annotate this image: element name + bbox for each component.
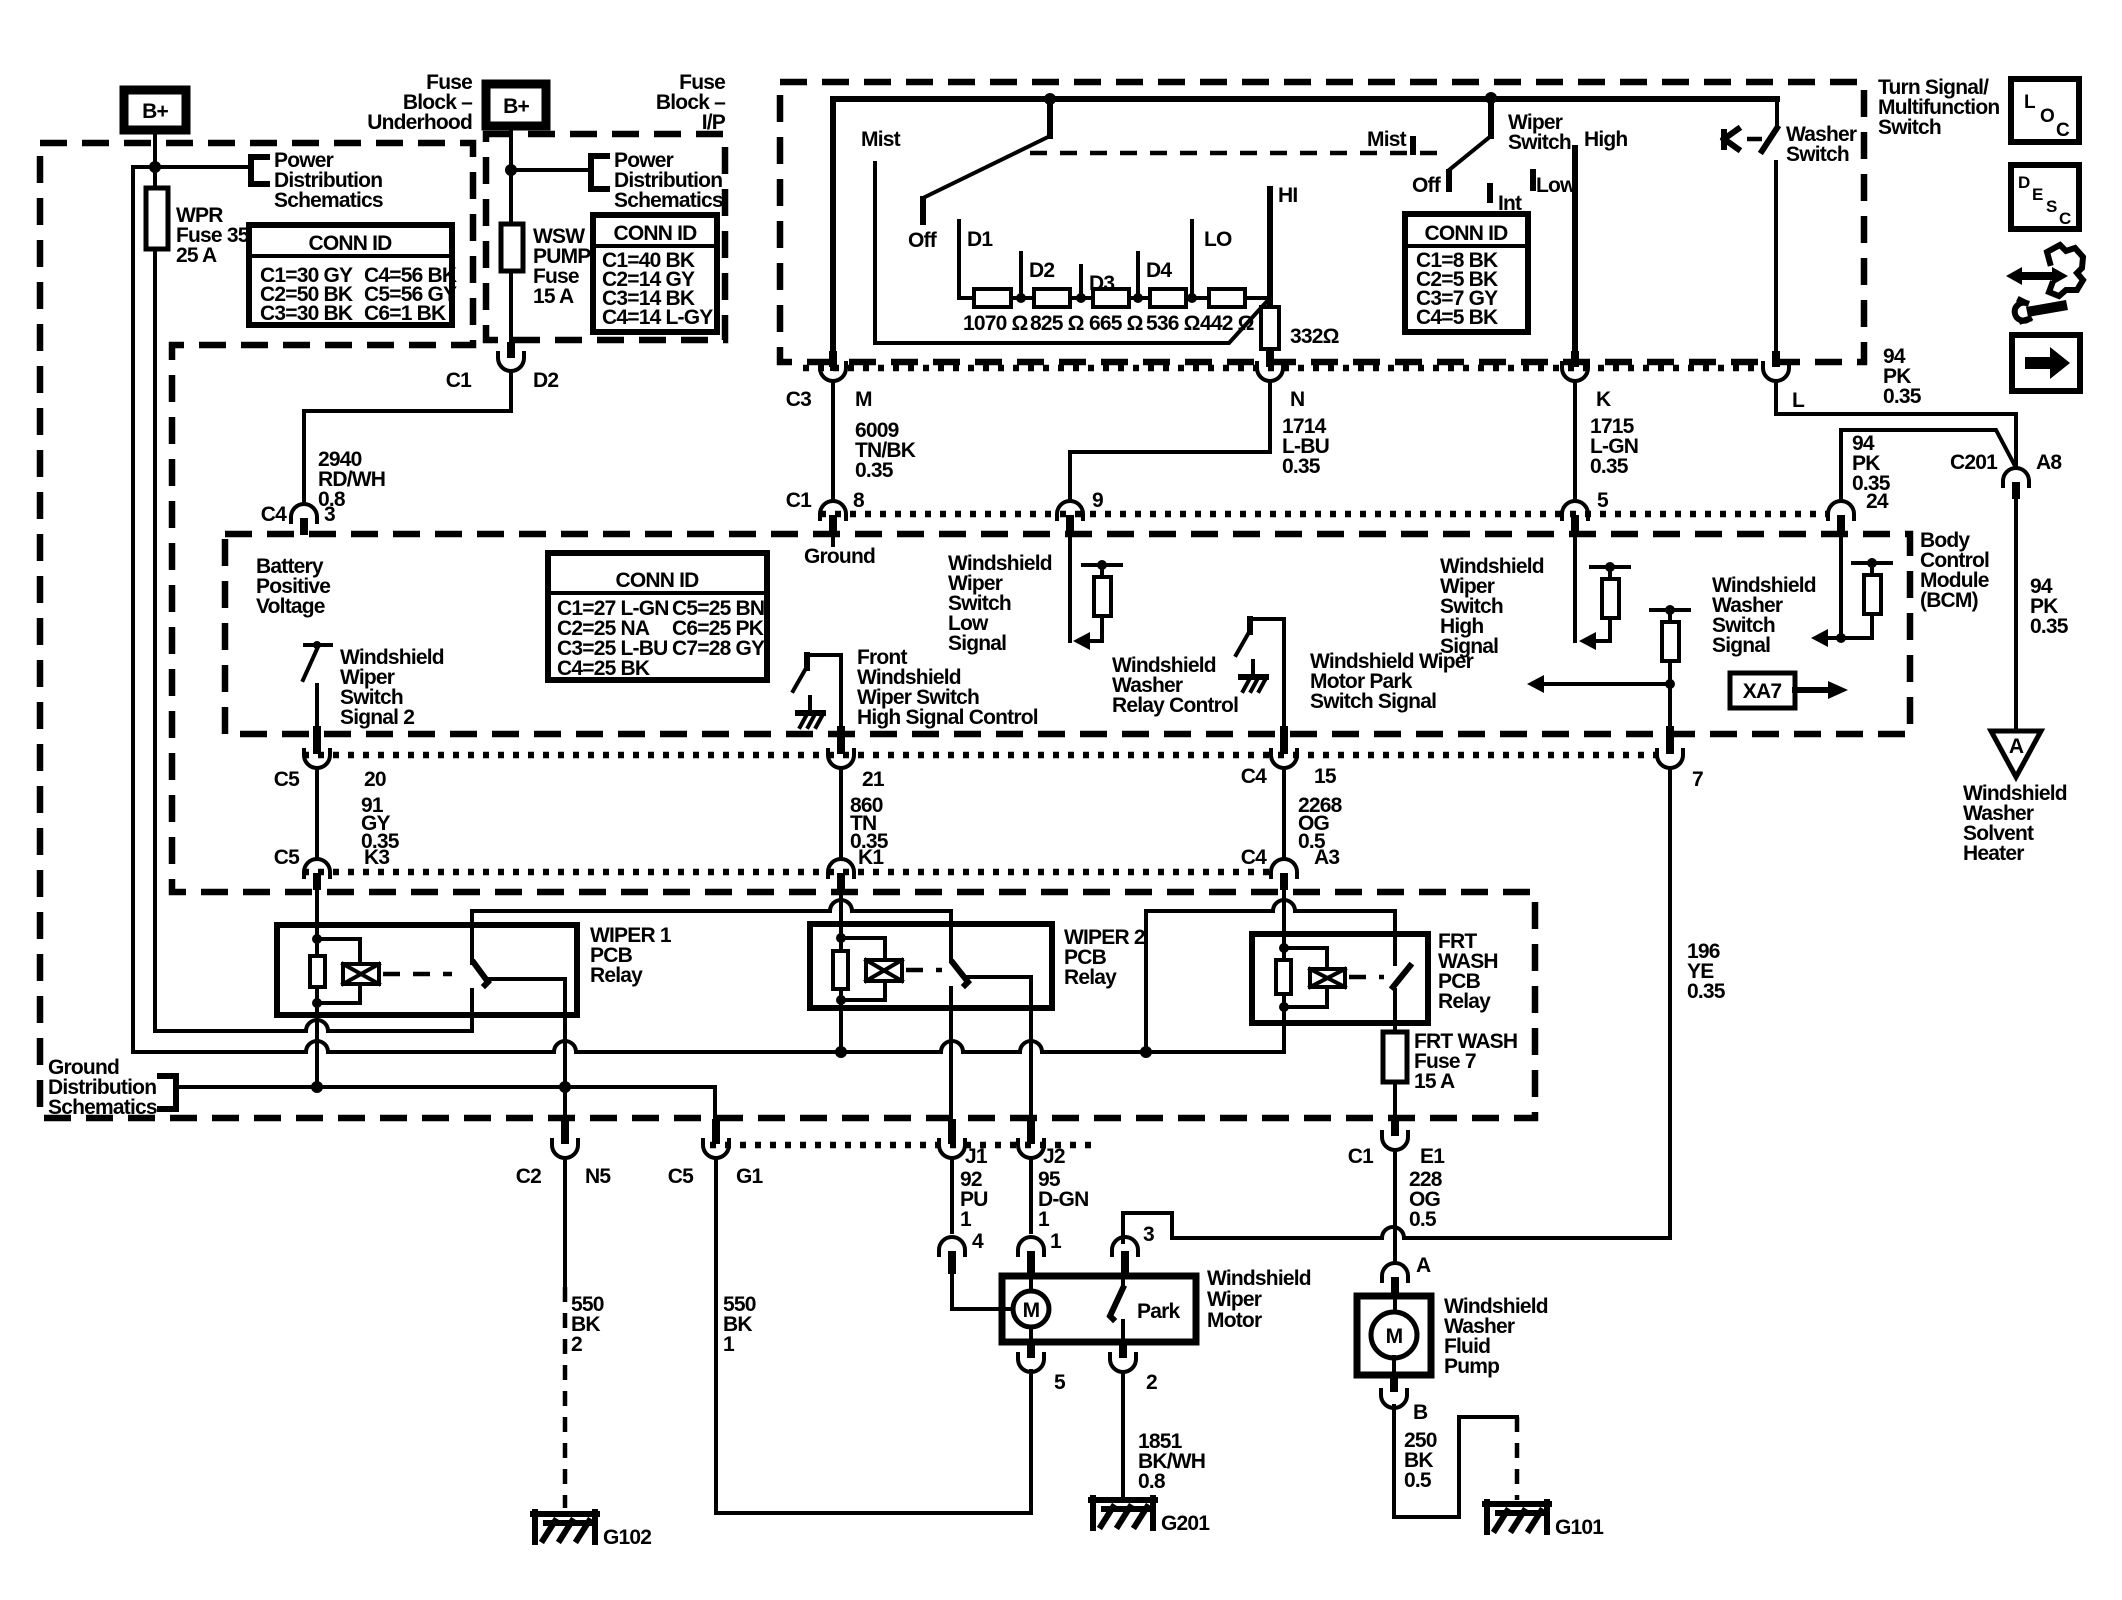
label Windshield Wiper Switch Low Signal xyxy=(948,552,1052,655)
svg-text:L: L xyxy=(2024,92,2036,113)
svg-text:2: 2 xyxy=(1146,1371,1157,1394)
node D3 junction xyxy=(1076,293,1086,303)
svg-text:E1: E1 xyxy=(1420,1145,1445,1168)
relay WIPER 1 PCB box xyxy=(277,924,672,1015)
svg-text:C4: C4 xyxy=(1241,846,1267,869)
svg-text:C7=28 GY: C7=28 GY xyxy=(672,637,765,660)
svg-text:C1: C1 xyxy=(786,489,812,512)
svg-text:J2: J2 xyxy=(1043,1145,1065,1168)
svg-text:Switch: Switch xyxy=(1508,131,1571,154)
junction node B+1 xyxy=(149,161,161,173)
resistor R4 536 ohm xyxy=(1146,289,1200,335)
contact stub D4 xyxy=(1138,253,1172,296)
pump motor M xyxy=(1371,1296,1417,1375)
relay FRT WASH PCB box xyxy=(1252,930,1498,1023)
wire A8 to solvent heater xyxy=(2016,499,2069,731)
svg-text:High: High xyxy=(1584,128,1627,151)
motor windshield wiper motor box xyxy=(1002,1267,1311,1342)
svg-text:B+: B+ xyxy=(503,95,529,118)
wire 228 OG 0.5 xyxy=(1395,1150,1443,1263)
wire 94 PK 0.35 to C201 xyxy=(1776,345,2016,465)
icon DESC box xyxy=(2011,165,2079,229)
wire 94 PK 0.35 branch 24 xyxy=(1841,430,2014,513)
svg-text:Relay: Relay xyxy=(590,964,643,987)
svg-text:21: 21 xyxy=(862,768,885,791)
connector C201 A8 xyxy=(1950,451,2062,499)
connector C2 N5 xyxy=(516,1119,612,1188)
connector 4 xyxy=(939,1230,984,1274)
svg-text:CONN ID: CONN ID xyxy=(1424,222,1508,245)
wire 1851 BK/WH 0.8 xyxy=(1123,1372,1205,1497)
connector C1 D2 xyxy=(446,342,559,392)
svg-text:1070 Ω: 1070 Ω xyxy=(963,312,1028,335)
svg-text:C3=30 BK: C3=30 BK xyxy=(260,302,353,325)
BCM dashed box xyxy=(225,534,1910,734)
wire 6009 TN/BK 0.35 xyxy=(833,381,916,501)
connector L xyxy=(1763,351,1805,412)
svg-text:5: 5 xyxy=(1597,489,1609,512)
wire wiper1 coil return to ground rail xyxy=(315,1003,319,1087)
svg-text:442 Ω: 442 Ω xyxy=(1200,312,1254,335)
connector J2 xyxy=(1018,1119,1065,1168)
node wiper1 coil return on ground rail xyxy=(311,1081,323,1093)
svg-text:Schematics: Schematics xyxy=(274,189,383,212)
svg-text:Motor: Motor xyxy=(1207,1309,1262,1332)
svg-text:B: B xyxy=(1413,1401,1428,1424)
svg-text:C5: C5 xyxy=(274,846,300,869)
svg-text:D1: D1 xyxy=(967,228,993,251)
svg-text:0.5: 0.5 xyxy=(1404,1469,1432,1492)
wire to power distribution bracket 2 xyxy=(511,168,591,172)
connector C5 G1 xyxy=(668,1119,764,1188)
svg-text:0.35: 0.35 xyxy=(1883,385,1922,408)
wire K3 to wiper1 relay coil xyxy=(315,890,319,939)
svg-text:3: 3 xyxy=(324,503,335,526)
contact stub D3 xyxy=(1081,266,1114,296)
svg-text:CONN ID: CONN ID xyxy=(308,232,392,255)
motor armature M xyxy=(952,1274,1049,1342)
svg-text:1: 1 xyxy=(1038,1208,1050,1231)
svg-text:C4=5 BK: C4=5 BK xyxy=(1416,306,1498,329)
icon diagnostic arrows and wrench xyxy=(2006,245,2083,321)
svg-text:15 A: 15 A xyxy=(1414,1070,1455,1093)
label Fuse Block - I/P xyxy=(656,71,726,134)
label Wiper Switch xyxy=(1508,111,1571,154)
label Battery Positive Voltage xyxy=(256,555,330,618)
wire park signal jog xyxy=(1123,1213,1670,1242)
svg-text:Relay Control: Relay Control xyxy=(1112,694,1238,717)
svg-text:C4: C4 xyxy=(1241,765,1267,788)
switch front windshield wiper switch high signal control xyxy=(793,646,1038,729)
svg-text:C2: C2 xyxy=(516,1165,541,1188)
wire 1715 L-GN 0.35 xyxy=(1575,381,1638,501)
svg-text:K3: K3 xyxy=(364,846,389,869)
connector A xyxy=(1382,1254,1431,1297)
wire 550 BK 2 xyxy=(565,1158,604,1508)
svg-text:0.35: 0.35 xyxy=(1590,455,1629,478)
svg-text:C: C xyxy=(2056,120,2070,141)
svg-text:G102: G102 xyxy=(603,1526,651,1549)
svg-text:332Ω: 332Ω xyxy=(1290,325,1339,348)
contact stub Off right xyxy=(1412,172,1449,197)
svg-text:536 Ω: 536 Ω xyxy=(1146,312,1200,335)
wire WSW fuse to connector xyxy=(509,271,513,342)
B+ terminal box 2 xyxy=(486,84,546,126)
connector 21 xyxy=(828,726,885,791)
ground G102 xyxy=(533,1512,651,1549)
connector 7 xyxy=(1657,726,1703,791)
svg-text:7: 7 xyxy=(1692,768,1703,791)
wire A3 to frt wash relay coil xyxy=(1282,890,1286,948)
svg-text:A3: A3 xyxy=(1314,846,1339,869)
pump windshield washer fluid pump box xyxy=(1357,1295,1548,1378)
wire High contact to connector K xyxy=(1575,128,1627,351)
wire B+1 down xyxy=(153,130,157,167)
label Mist right xyxy=(1367,128,1413,152)
svg-text:9: 9 xyxy=(1092,489,1103,512)
svg-text:L: L xyxy=(1792,389,1805,412)
svg-text:C: C xyxy=(2059,209,2071,228)
relay wiper2 coil xyxy=(833,933,902,1005)
bracket power distribution schematics 1 xyxy=(251,149,383,212)
node wiper2 coil return on rail xyxy=(835,1046,847,1058)
svg-text:Underhood: Underhood xyxy=(367,111,472,134)
svg-text:Park: Park xyxy=(1137,1300,1180,1323)
svg-text:Relay: Relay xyxy=(1064,966,1117,989)
wire 550 BK 1 xyxy=(716,1158,1031,1513)
svg-text:Signal 2: Signal 2 xyxy=(340,706,414,729)
icon arrow box xyxy=(2012,335,2080,391)
connector J1 xyxy=(939,1119,988,1168)
svg-text:4: 4 xyxy=(972,1230,984,1253)
svg-text:B+: B+ xyxy=(142,100,168,123)
svg-text:C201: C201 xyxy=(1950,451,1998,474)
svg-text:A8: A8 xyxy=(2036,451,2062,474)
wire 2268 OG 0.5 xyxy=(1284,768,1343,859)
connector C4 3 xyxy=(291,504,317,535)
label Windshield Wiper Switch High Signal xyxy=(1440,555,1544,658)
svg-text:2: 2 xyxy=(571,1333,582,1356)
contact stub LO xyxy=(1192,221,1232,296)
svg-text:8: 8 xyxy=(853,489,865,512)
svg-text:O: O xyxy=(2040,106,2054,127)
svg-text:C4: C4 xyxy=(261,503,287,526)
svg-text:C6=1 BK: C6=1 BK xyxy=(364,302,446,325)
fuse block underhood dashed outline (merges into relay region below) xyxy=(40,143,1535,1118)
connector 2 xyxy=(1110,1342,1157,1394)
fuse block I/P dashed outline xyxy=(486,134,725,340)
svg-text:CONN ID: CONN ID xyxy=(615,569,699,592)
bracket ground distribution schematics xyxy=(48,1056,176,1119)
svg-text:Switch: Switch xyxy=(1878,116,1941,139)
svg-text:M: M xyxy=(1386,1325,1403,1348)
relay WIPER 2 PCB box xyxy=(810,924,1145,1008)
relay frt wash coil xyxy=(1276,943,1345,1012)
relay wiper1 switch xyxy=(472,911,565,1052)
wire 91 GY 0.35 xyxy=(317,768,400,859)
connector 5 xyxy=(1018,1342,1066,1394)
wire wiper1 relay output to N5 xyxy=(563,979,567,1128)
svg-text:Signal: Signal xyxy=(1712,634,1770,657)
off-page connector A windshield washer solvent heater xyxy=(1963,731,2067,865)
svg-text:(BCM): (BCM) xyxy=(1920,589,1978,612)
relay wiper2 actuation dashes xyxy=(906,968,942,973)
wire washer switch to connector L xyxy=(1774,162,1778,351)
label Body Control Module (BCM) xyxy=(1920,529,1989,612)
wire frt fuse to E1 xyxy=(1393,1082,1397,1120)
ground G201 xyxy=(1091,1498,1210,1535)
svg-text:Pump: Pump xyxy=(1444,1355,1499,1378)
wire B+2 down xyxy=(509,126,513,170)
wire WPR fuse down to feed rail xyxy=(153,249,157,1031)
svg-text:Windshield: Windshield xyxy=(1207,1267,1311,1290)
svg-text:665 Ω: 665 Ω xyxy=(1089,312,1143,335)
svg-text:LO: LO xyxy=(1204,228,1232,251)
wire relay interconnect 911 right xyxy=(1146,900,1395,964)
svg-text:24: 24 xyxy=(1866,490,1889,513)
ground G101 xyxy=(1485,1502,1604,1539)
svg-text:C1: C1 xyxy=(1348,1145,1374,1168)
wire to power distribution bracket xyxy=(133,165,251,169)
svg-text:Relay: Relay xyxy=(1438,990,1491,1013)
wire wiper2 coil return to rail xyxy=(839,1000,843,1052)
resistor R1 1070 ohm xyxy=(963,289,1028,335)
connector N xyxy=(1257,351,1304,411)
svg-text:1: 1 xyxy=(723,1333,735,1356)
resistor assembly low signal xyxy=(1073,560,1121,650)
contact stub D2 xyxy=(1021,253,1054,296)
wire mist contact xyxy=(875,163,1270,343)
connector XA7 xyxy=(1730,673,1848,708)
svg-text:15: 15 xyxy=(1314,765,1337,788)
contact stub D1 xyxy=(959,221,993,296)
CONN ID table underhood xyxy=(249,225,457,325)
svg-text:20: 20 xyxy=(364,768,386,791)
contact stub Off left xyxy=(908,199,938,252)
svg-text:Low: Low xyxy=(1536,174,1577,197)
svg-text:Off: Off xyxy=(1412,174,1442,197)
svg-text:1: 1 xyxy=(1050,1230,1062,1253)
svg-text:K1: K1 xyxy=(858,846,884,869)
wire 196 YE 0.35 xyxy=(1670,768,1726,1238)
wire frt coil return to rail xyxy=(1282,1007,1286,1052)
contact tick Int xyxy=(1490,186,1522,215)
wire 2940 RD/WH 0.8 xyxy=(261,371,511,526)
connector C1 E1 xyxy=(1348,1120,1445,1168)
svg-text:C5: C5 xyxy=(274,768,300,791)
connector 9 xyxy=(1057,489,1103,532)
CONN ID table I/P xyxy=(593,215,717,332)
wire left feeder down to ground rail xyxy=(131,167,135,1052)
wire main ground rail xyxy=(133,1041,1284,1052)
switch lever wiper xyxy=(1488,98,1494,136)
node wiper lever pivot 2 xyxy=(1485,92,1497,104)
connector B xyxy=(1381,1375,1428,1424)
resistor assembly washer switch signal xyxy=(1811,558,1891,647)
connector K1 xyxy=(828,846,884,890)
svg-text:Signal: Signal xyxy=(948,632,1006,655)
svg-text:Switch: Switch xyxy=(1786,143,1849,166)
resistor R6 332 ohm xyxy=(1261,307,1339,349)
svg-text:0.35: 0.35 xyxy=(2030,615,2069,638)
svg-text:Schematics: Schematics xyxy=(614,189,723,212)
harness connector row xyxy=(803,365,1763,372)
svg-text:K: K xyxy=(1596,388,1611,411)
wire 1714 L-BU 0.35 xyxy=(1070,381,1329,501)
svg-text:5: 5 xyxy=(1054,1371,1066,1394)
icon LOC box xyxy=(2011,79,2079,142)
svg-text:Heater: Heater xyxy=(1963,842,2024,865)
wire 95 D-GN 1 xyxy=(1031,1158,1088,1232)
svg-text:Wiper: Wiper xyxy=(1207,1288,1262,1311)
washer switch pull arrow xyxy=(1724,129,1762,149)
node frt riser on rail xyxy=(1140,1046,1152,1058)
label Fuse Block - Underhood xyxy=(367,71,473,134)
svg-text:I/P: I/P xyxy=(702,111,726,134)
svg-text:3: 3 xyxy=(1143,1223,1154,1246)
connector 5 xyxy=(1562,489,1609,532)
svg-text:D2: D2 xyxy=(533,369,558,392)
switch windshield wiper switch signal 2 xyxy=(303,641,444,729)
svg-text:C4=25 BK: C4=25 BK xyxy=(557,657,650,680)
harness connector row J (y=1145) xyxy=(710,1142,1093,1149)
label Turn Signal/Multifunction Switch xyxy=(1878,76,1999,139)
node wiper lever pivot 1 xyxy=(1044,93,1056,105)
resistor assembly high signal xyxy=(1579,562,1629,650)
svg-text:C5: C5 xyxy=(668,1165,694,1188)
svg-text:Mist: Mist xyxy=(861,128,901,151)
B+ terminal box 1 xyxy=(124,90,186,130)
svg-text:15 A: 15 A xyxy=(533,285,574,308)
resistor assembly park switch signal xyxy=(1527,605,1689,726)
wire ground 8 stub xyxy=(831,532,835,545)
svg-text:A: A xyxy=(2009,735,2024,758)
node D4 junction xyxy=(1133,293,1143,303)
svg-text:1: 1 xyxy=(960,1208,972,1231)
svg-text:0.35: 0.35 xyxy=(1687,980,1726,1003)
wire 250 BK 0.5 xyxy=(1394,1406,1517,1517)
node N5 branch on ground rail xyxy=(559,1081,571,1093)
wire K1 to wiper2 relay coil xyxy=(839,890,843,938)
harness connector row upper xyxy=(303,752,1656,759)
svg-text:G101: G101 xyxy=(1555,1516,1604,1539)
bcm connector row xyxy=(820,511,1828,518)
svg-text:Schematics: Schematics xyxy=(48,1096,157,1119)
label Washer Switch xyxy=(1786,123,1857,166)
turn signal multifunction switch dashed box xyxy=(780,82,1864,362)
connector C5 20 xyxy=(274,726,386,791)
svg-text:D: D xyxy=(2018,173,2030,192)
svg-text:0.35: 0.35 xyxy=(1282,455,1321,478)
fuse FRT WASH Fuse 7 15A xyxy=(1383,1030,1517,1093)
svg-text:0.5: 0.5 xyxy=(1409,1208,1437,1231)
relay frt wash switch xyxy=(1393,966,1410,1032)
svg-text:G201: G201 xyxy=(1161,1512,1210,1535)
wire riser rail to interconnect xyxy=(1144,911,1148,1052)
resistor R2 825 ohm xyxy=(1030,289,1084,335)
svg-text:0.8: 0.8 xyxy=(1138,1470,1166,1493)
washer switch lever xyxy=(1762,101,1777,151)
connector C1 8 xyxy=(786,489,865,532)
svg-text:G1: G1 xyxy=(736,1165,764,1188)
harness connector row lower xyxy=(303,869,1270,876)
wire dashed to G101 xyxy=(1515,1417,1520,1500)
label Windshield Wiper Motor Park Switch Signal xyxy=(1310,650,1474,713)
connector C3 M xyxy=(786,351,872,411)
svg-text:XA7: XA7 xyxy=(1743,680,1782,703)
relay wiper2 switch xyxy=(951,963,1031,1128)
svg-text:N: N xyxy=(1290,388,1304,411)
connector 1 xyxy=(1018,1230,1062,1274)
switch lever dimmer xyxy=(1047,99,1053,136)
svg-text:A: A xyxy=(1416,1254,1431,1277)
node LO junction xyxy=(1187,293,1197,303)
wire 92 PU 1 xyxy=(952,1158,988,1232)
svg-text:C3: C3 xyxy=(786,388,811,411)
svg-text:D2: D2 xyxy=(1029,259,1054,282)
fuse WSW PUMP Fuse 15A xyxy=(501,170,591,308)
svg-text:M: M xyxy=(1023,1299,1040,1322)
svg-text:Voltage: Voltage xyxy=(256,595,325,618)
connector C4 A3 xyxy=(1241,846,1340,890)
svg-text:25 A: 25 A xyxy=(176,244,217,267)
label Windshield Washer Switch Signal xyxy=(1712,574,1816,657)
wire 5 into bcm xyxy=(1573,532,1577,641)
relay wiper1 coil xyxy=(310,934,379,1008)
relay frt wash actuation dashes xyxy=(1349,975,1384,980)
switch windshield washer relay control xyxy=(1112,619,1284,726)
connector 3 xyxy=(1112,1223,1154,1274)
node D2 junction xyxy=(1016,293,1026,303)
svg-text:E: E xyxy=(2032,185,2043,204)
CONN ID table switch xyxy=(1405,214,1528,332)
svg-text:M: M xyxy=(855,388,872,411)
wire resistor chain xyxy=(959,296,1270,300)
CONN ID table BCM xyxy=(548,553,767,680)
svg-text:825 Ω: 825 Ω xyxy=(1030,312,1084,335)
wire relay interconnect 911 left xyxy=(472,900,951,961)
svg-text:Mist: Mist xyxy=(1367,128,1407,151)
junction node B+2 xyxy=(505,164,517,176)
wire ground distribution rail xyxy=(176,1087,715,1128)
wire HI xyxy=(1270,184,1297,307)
resistor R5 442 ohm xyxy=(1200,289,1254,335)
resistor R3 665 ohm xyxy=(1089,289,1143,335)
connector C4 15 xyxy=(1241,726,1337,788)
svg-text:CONN ID: CONN ID xyxy=(613,222,697,245)
svg-text:D4: D4 xyxy=(1146,259,1172,282)
bracket power distribution schematics 2 xyxy=(591,149,723,212)
svg-text:C4=14 L-GY: C4=14 L-GY xyxy=(602,306,713,329)
svg-text:Off: Off xyxy=(908,229,938,252)
wire 24 into bcm xyxy=(1839,532,1843,638)
wire wpr feed rail xyxy=(155,1020,472,1031)
relay wiper1 actuation dashes xyxy=(383,972,452,977)
connector 24 xyxy=(1828,501,1854,532)
svg-text:N5: N5 xyxy=(585,1165,611,1188)
svg-text:High Signal Control: High Signal Control xyxy=(857,706,1038,729)
wire 860 TN 0.35 xyxy=(841,768,889,859)
svg-text:C1: C1 xyxy=(446,369,472,392)
park switch xyxy=(1110,1276,1180,1342)
wire 9 into bcm xyxy=(1068,532,1072,641)
wire switch feed bus xyxy=(833,99,1777,368)
svg-text:Switch Signal: Switch Signal xyxy=(1310,690,1436,713)
fuse WPR Fuse 35 25A xyxy=(146,167,250,267)
connector K xyxy=(1562,351,1611,411)
svg-text:J1: J1 xyxy=(965,1145,988,1168)
svg-text:Ground: Ground xyxy=(804,545,875,568)
